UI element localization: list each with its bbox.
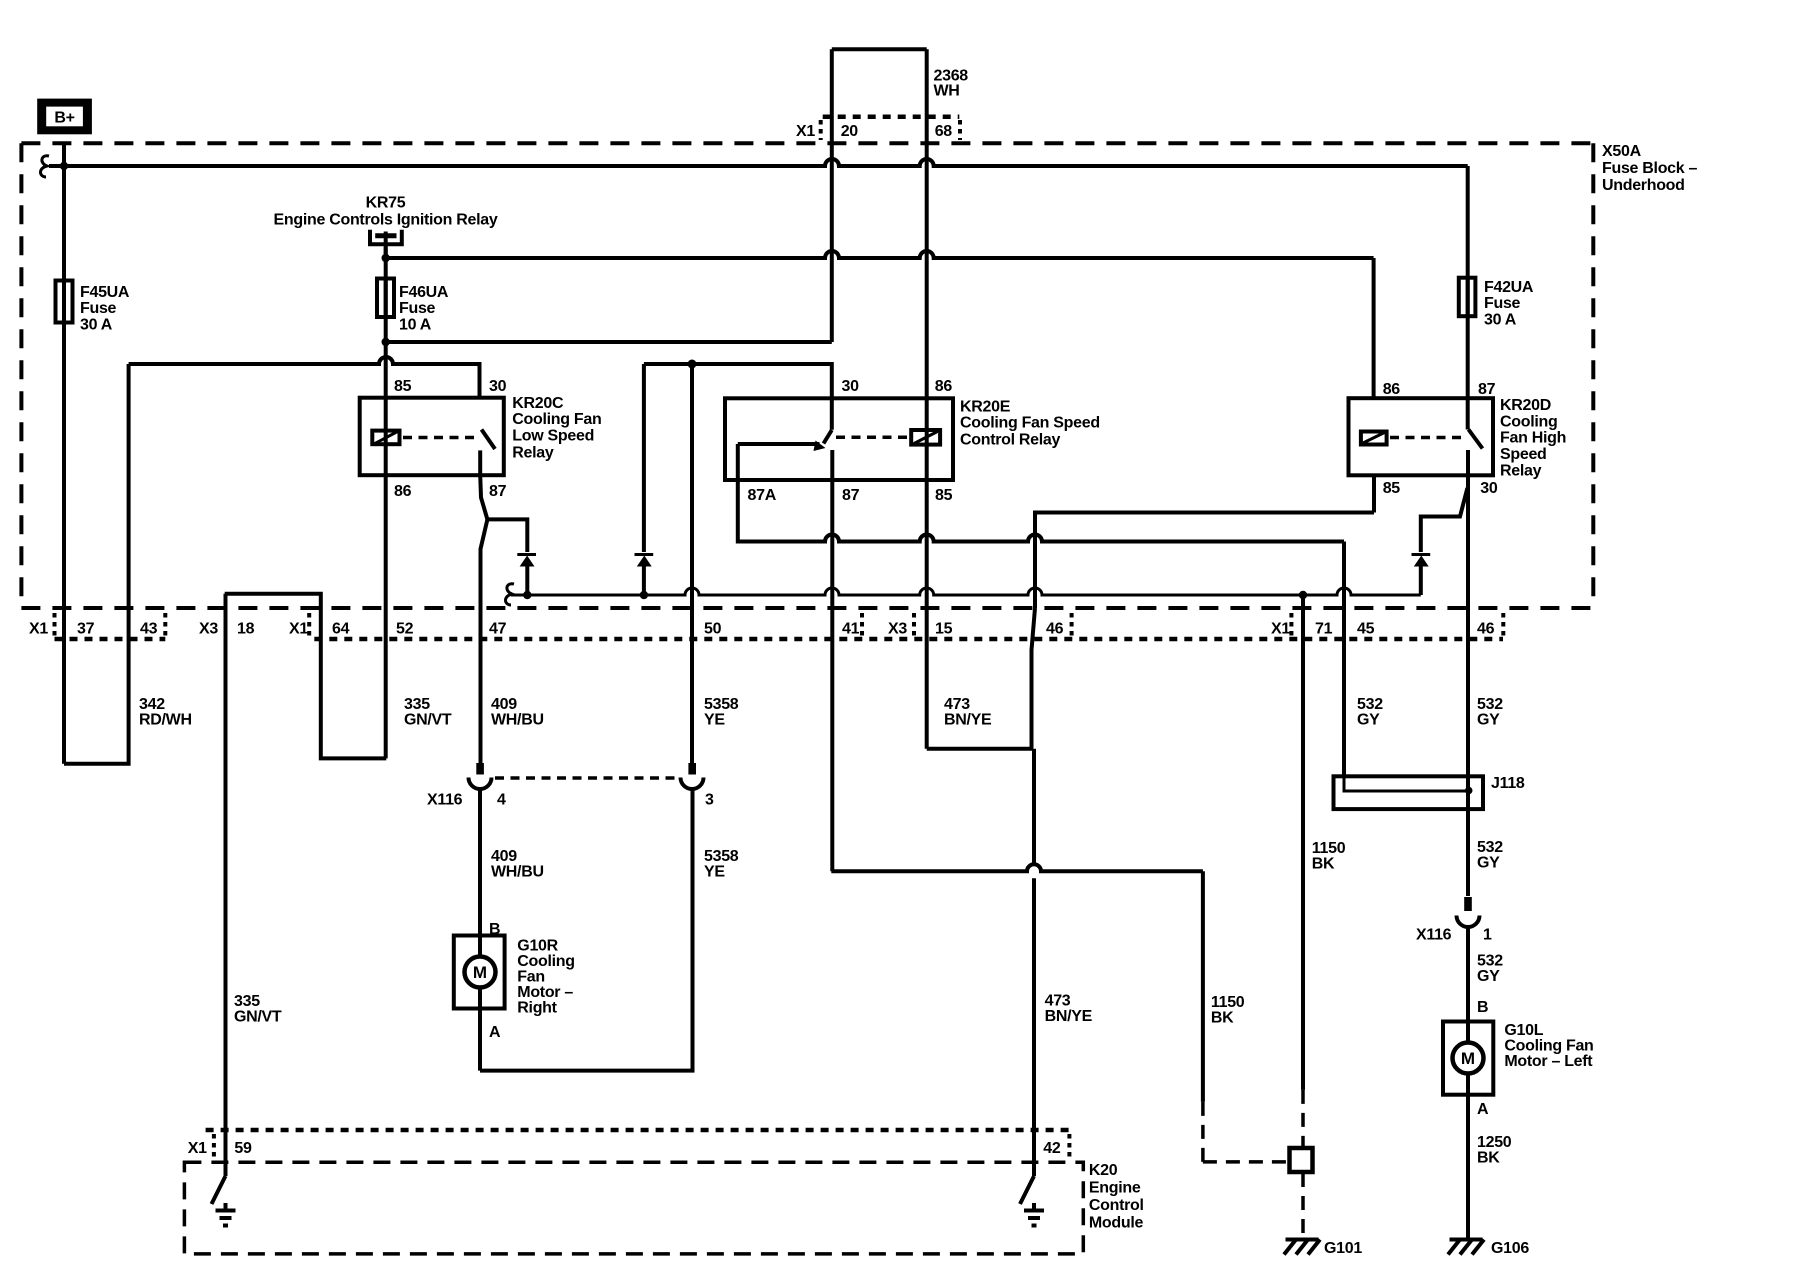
svg-text:GY: GY <box>1477 712 1500 729</box>
svg-text:335: 335 <box>234 993 260 1010</box>
svg-text:68: 68 <box>935 123 953 140</box>
svg-text:20: 20 <box>841 123 859 140</box>
svg-text:3: 3 <box>705 792 714 809</box>
wire F42UA vertical down to KR20D pin 87 <box>1466 166 1470 430</box>
node: diode2 junction <box>640 591 648 599</box>
svg-text:532: 532 <box>1477 839 1503 856</box>
diode 3 (KR20D) <box>1412 553 1431 556</box>
main bus y=595 (low speed splice rail) <box>511 588 1421 595</box>
relay KR20E switch with arrowhead <box>824 430 832 444</box>
svg-text:45: 45 <box>1357 621 1375 638</box>
wire 335 GN/VT loop over connector (18 to 64) <box>225 594 387 759</box>
svg-text:KR20D: KR20D <box>1500 397 1551 414</box>
wire 409 WH/BU X116-4 to motor B <box>478 790 482 1071</box>
svg-text:409: 409 <box>491 848 517 865</box>
svg-text:Cooling Fan Speed: Cooling Fan Speed <box>960 415 1100 432</box>
svg-text:X50A: X50A <box>1602 143 1642 160</box>
connector row X1/X3 dotted bottom line <box>55 637 166 642</box>
svg-text:1: 1 <box>1483 927 1492 944</box>
svg-text:532: 532 <box>1357 696 1383 713</box>
svg-text:A: A <box>1477 1101 1489 1118</box>
svg-text:473: 473 <box>1045 993 1071 1010</box>
svg-text:473: 473 <box>944 696 970 713</box>
svg-text:5358: 5358 <box>704 696 739 713</box>
wire 2368 WH riser pin 68 to KR20E pin 86 <box>925 49 929 749</box>
svg-text:KR20C: KR20C <box>512 395 564 412</box>
wire 5358 YE pin 50 down to X116-3 <box>690 364 694 764</box>
svg-text:GN/VT: GN/VT <box>234 1009 282 1026</box>
motor G10R box <box>454 936 505 1009</box>
svg-text:30 A: 30 A <box>1484 312 1517 329</box>
svg-text:WH/BU: WH/BU <box>491 712 544 729</box>
node: diode1 junction <box>523 591 531 599</box>
top X1 connector (pins 20/68) dotted line <box>823 114 960 119</box>
svg-text:59: 59 <box>234 1140 252 1157</box>
wire F46UA output to X1-20 riser <box>386 340 832 344</box>
wire pin 45 drop to J118 <box>1342 542 1346 777</box>
svg-text:WH: WH <box>934 83 960 100</box>
svg-text:46: 46 <box>1477 621 1495 638</box>
svg-text:X3: X3 <box>888 621 907 638</box>
B+ terminal box <box>37 99 92 135</box>
svg-text:Underhood: Underhood <box>1602 177 1685 194</box>
svg-text:G101: G101 <box>1324 1240 1362 1257</box>
connector X116 pins 4/3 <box>476 763 484 775</box>
wire KR20D pin 30 down to G10L / G106 <box>1466 475 1470 896</box>
svg-text:71: 71 <box>1315 621 1333 638</box>
diode 1 (KR20C output) <box>517 553 536 556</box>
svg-text:X1: X1 <box>188 1140 207 1157</box>
svg-text:Engine: Engine <box>1089 1180 1141 1197</box>
svg-text:BK: BK <box>1477 1150 1500 1167</box>
svg-text:A: A <box>489 1024 501 1041</box>
svg-text:GY: GY <box>1477 855 1500 872</box>
svg-text:Cooling: Cooling <box>1500 414 1557 431</box>
ECM connector dotted line <box>206 1128 1070 1133</box>
svg-text:Engine Controls Ignition Relay: Engine Controls Ignition Relay <box>274 212 498 229</box>
motor G10L box <box>1443 1022 1493 1095</box>
svg-text:Low Speed: Low Speed <box>512 428 594 445</box>
svg-text:X3: X3 <box>199 621 218 638</box>
ground G106 <box>1450 1238 1483 1242</box>
wire KR20D coil 86 drop <box>1372 258 1376 398</box>
svg-text:BK: BK <box>1211 1010 1234 1027</box>
svg-text:M: M <box>1461 1049 1475 1068</box>
wire KR20E pin 87 down through pin 41 <box>830 480 834 871</box>
svg-text:86: 86 <box>1383 381 1401 398</box>
node: motor feed junction <box>688 360 697 369</box>
svg-text:30: 30 <box>842 378 860 395</box>
svg-text:B: B <box>1477 999 1488 1016</box>
svg-text:409: 409 <box>491 696 517 713</box>
svg-text:85: 85 <box>935 487 953 504</box>
connector separators <box>53 613 57 637</box>
connector X116 pin 1 <box>1464 897 1472 911</box>
relay KR75 connector symbol <box>370 230 402 245</box>
svg-text:10 A: 10 A <box>399 317 432 334</box>
svg-text:50: 50 <box>704 621 722 638</box>
wire start curl at bus <box>506 584 515 605</box>
wire top rail y=166 from B+ to F42UA <box>49 159 1468 166</box>
svg-text:X1: X1 <box>289 621 308 638</box>
wire KR20C pin 87 output <box>480 475 487 519</box>
svg-text:46: 46 <box>1046 621 1064 638</box>
wire 409 WH/BU down to X116-4 <box>481 519 488 764</box>
svg-text:BN/YE: BN/YE <box>944 712 992 729</box>
svg-text:1150: 1150 <box>1211 994 1245 1011</box>
svg-text:BN/YE: BN/YE <box>1045 1008 1093 1025</box>
top circuit box 2368 WH <box>832 47 927 51</box>
svg-text:J118: J118 <box>1491 775 1525 792</box>
svg-text:GN/VT: GN/VT <box>404 712 452 729</box>
svg-text:30: 30 <box>489 378 507 395</box>
motor G10L symbol <box>1453 1043 1484 1074</box>
ground G101 <box>1286 1238 1319 1242</box>
svg-text:86: 86 <box>394 483 412 500</box>
svg-text:YE: YE <box>704 712 725 729</box>
svg-text:52: 52 <box>396 621 414 638</box>
svg-text:M: M <box>473 963 487 982</box>
wire 342 circuit: pins 37-43 under-connector U <box>64 364 129 764</box>
diode 2 (fan feed) <box>635 553 654 556</box>
svg-text:Fuse Block –: Fuse Block – <box>1602 160 1698 177</box>
ECM pin 59 internal switch and ground <box>212 1176 226 1204</box>
svg-text:Speed: Speed <box>1500 446 1547 463</box>
svg-text:42: 42 <box>1043 1140 1061 1157</box>
wire pin 41 to 1150 BK run <box>831 864 1203 871</box>
svg-text:Relay: Relay <box>512 445 554 462</box>
wire KR20D pin 85 to pin 46 (y=512.5) <box>1372 475 1376 512</box>
svg-text:Control: Control <box>1089 1197 1144 1214</box>
node: B+ rail junction <box>60 162 68 170</box>
svg-text:YE: YE <box>704 864 725 881</box>
svg-text:87: 87 <box>489 483 507 500</box>
fuse F42UA <box>1459 278 1476 317</box>
svg-text:87A: 87A <box>748 487 777 504</box>
svg-text:335: 335 <box>404 696 430 713</box>
svg-text:Cooling: Cooling <box>517 953 574 970</box>
node: F46UA output junction <box>382 338 390 346</box>
wire B+ feed down through F45UA to pin 37 <box>62 144 66 764</box>
svg-text:X116: X116 <box>427 792 463 809</box>
svg-text:18: 18 <box>237 621 255 638</box>
svg-text:RD/WH: RD/WH <box>139 712 192 729</box>
wire ignition rail y=258 to KR20D coil <box>386 251 1374 258</box>
svg-text:Fan: Fan <box>517 969 545 986</box>
svg-text:B+: B+ <box>54 110 74 127</box>
svg-text:F45UA: F45UA <box>80 284 130 301</box>
wire 473 BN/YE down to ECM pin 42 <box>1032 749 1036 1176</box>
svg-text:Fuse: Fuse <box>399 300 436 317</box>
wire KR20E 87A to pin 45 (y=541.5) <box>738 480 1344 542</box>
relay KR20E box <box>725 398 953 480</box>
ECM K20 dashed box <box>184 1162 1083 1254</box>
fuse F46UA <box>377 279 394 318</box>
svg-text:KR75: KR75 <box>366 195 406 212</box>
relay KR20C switch <box>482 430 496 450</box>
svg-text:Fuse: Fuse <box>80 300 117 317</box>
splice square on 1150 BK <box>1290 1148 1313 1172</box>
fuse block X50A dashed border <box>21 141 1593 145</box>
svg-text:K20: K20 <box>1089 1162 1118 1179</box>
svg-text:15: 15 <box>935 621 953 638</box>
svg-text:WH/BU: WH/BU <box>491 864 544 881</box>
node: 1150 BK junction <box>1299 591 1307 599</box>
svg-text:Fan High: Fan High <box>1500 430 1566 447</box>
relay KR20E coil <box>911 430 940 445</box>
wire low-speed feed y=364 to KR20E pin 30 <box>644 364 832 430</box>
fuse F45UA <box>56 281 73 323</box>
svg-text:85: 85 <box>394 378 412 395</box>
wire diode-3 branch from pin 30 <box>1421 488 1468 552</box>
node: KR75 output junction <box>382 254 390 262</box>
svg-text:Motor –: Motor – <box>517 984 573 1001</box>
wire 473 BN/YE pin 15 / pin 46 U-join <box>927 747 1033 751</box>
svg-text:30: 30 <box>1480 480 1498 497</box>
splice J118 <box>1334 776 1484 809</box>
svg-text:86: 86 <box>935 378 953 395</box>
svg-text:X1: X1 <box>796 123 815 140</box>
relay KR20D coil <box>1361 432 1387 445</box>
wire 2368 WH riser pin 20 <box>830 49 834 342</box>
svg-text:GY: GY <box>1477 968 1500 985</box>
wire motor A loop to X116-3 <box>480 790 693 1071</box>
ECM pin 42 internal switch and ground <box>1020 1176 1034 1204</box>
svg-text:G106: G106 <box>1491 1240 1529 1257</box>
svg-text:X116: X116 <box>1416 927 1452 944</box>
relay KR20C box <box>360 398 504 476</box>
svg-text:Cooling Fan: Cooling Fan <box>1504 1038 1593 1055</box>
svg-text:Cooling Fan: Cooling Fan <box>512 411 601 428</box>
wire 335 GN/VT down to ECM pin 59 <box>224 594 228 1176</box>
svg-text:B: B <box>489 921 500 938</box>
svg-text:G10R: G10R <box>517 938 558 955</box>
motor G10R symbol <box>465 957 496 988</box>
svg-text:532: 532 <box>1477 953 1503 970</box>
svg-text:F42UA: F42UA <box>1484 279 1534 296</box>
svg-text:64: 64 <box>332 621 350 638</box>
svg-text:4: 4 <box>497 792 506 809</box>
svg-text:1150: 1150 <box>1312 840 1346 857</box>
svg-text:47: 47 <box>489 621 507 638</box>
svg-text:87: 87 <box>1478 381 1496 398</box>
relay KR20E 87A internal wire <box>738 442 820 446</box>
svg-text:342: 342 <box>139 696 165 713</box>
relay KR20C coil <box>372 431 399 445</box>
wire 1150 BK pin 71 drop <box>1301 595 1305 1090</box>
svg-text:F46UA: F46UA <box>399 284 449 301</box>
wire 342 feed to KR20C pin 30 <box>129 357 480 398</box>
wire 1150 BK drop (solid then dashed) to G101 splice <box>1201 871 1205 1102</box>
svg-text:1250: 1250 <box>1477 1134 1512 1151</box>
svg-text:X1: X1 <box>1271 621 1290 638</box>
svg-text:Fuse: Fuse <box>1484 295 1521 312</box>
svg-text:532: 532 <box>1477 696 1503 713</box>
svg-text:30 A: 30 A <box>80 317 113 334</box>
svg-text:GY: GY <box>1357 712 1380 729</box>
svg-text:Control Relay: Control Relay <box>960 432 1061 449</box>
svg-text:Module: Module <box>1089 1215 1144 1232</box>
svg-text:85: 85 <box>1383 480 1401 497</box>
svg-text:87: 87 <box>842 487 860 504</box>
svg-text:KR20E: KR20E <box>960 399 1011 416</box>
svg-text:X1: X1 <box>29 621 48 638</box>
svg-text:43: 43 <box>140 621 158 638</box>
svg-text:BK: BK <box>1312 856 1335 873</box>
svg-text:Relay: Relay <box>1500 463 1542 480</box>
svg-text:Motor – Left: Motor – Left <box>1504 1053 1593 1070</box>
svg-text:5358: 5358 <box>704 848 739 865</box>
svg-text:G10L: G10L <box>1504 1022 1543 1039</box>
wire diode-2 branch down <box>642 364 646 552</box>
relay KR20D switch <box>1469 430 1483 449</box>
svg-text:37: 37 <box>77 621 95 638</box>
wire start curl at B+ rail <box>41 156 50 177</box>
svg-text:41: 41 <box>842 621 860 638</box>
relay KR20D box <box>1349 398 1494 475</box>
svg-text:Right: Right <box>517 1000 557 1017</box>
wire KR75 output down through F46UA to KR20C coil and pin 52 <box>384 247 388 758</box>
